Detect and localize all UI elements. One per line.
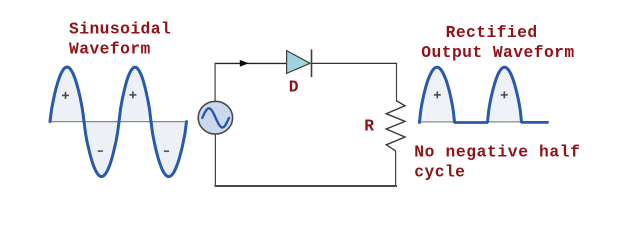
wire: right vertical, corner to resistor top <box>396 63 398 101</box>
wire: left vertical, source bottom to corner <box>214 134 216 186</box>
svg-text:cycle: cycle <box>414 162 465 181</box>
svg-text:R: R <box>364 117 374 136</box>
resistor R zigzag <box>386 101 405 151</box>
wire: left vertical, corner to source top <box>214 63 216 102</box>
rectified hump 1 fill <box>420 67 455 122</box>
svg-text:Rectified: Rectified <box>446 23 538 42</box>
wire: top, diode to top-right corner <box>311 62 397 64</box>
rectified hump 1 curve <box>420 67 455 122</box>
output baseline between humps <box>454 121 488 124</box>
svg-text:Output Waveform: Output Waveform <box>421 43 574 62</box>
input waveform baseline (x-axis) <box>50 121 187 123</box>
AC source V1 (circle with sine) <box>198 101 232 134</box>
plus sign, input cycle 2 <box>129 91 136 98</box>
plus sign, input cycle 1 <box>62 92 69 99</box>
svg-text:Sinusoidal: Sinusoidal <box>69 19 171 38</box>
wire: top, source to diode (with current arrow) <box>215 62 287 64</box>
minus sign, input cycle 2 <box>164 150 169 152</box>
svg-text:Waveform: Waveform <box>69 39 151 58</box>
output baseline stub left <box>418 121 420 124</box>
gray chord under hump 1 <box>420 121 455 123</box>
svg-text:No negative half: No negative half <box>414 142 580 161</box>
input sine waveform curve <box>50 67 187 177</box>
diode D: anode triangle <box>287 51 311 74</box>
input sine waveform fill <box>50 67 187 177</box>
wire: right vertical, resistor bottom to corner <box>395 151 397 187</box>
rectified hump 2 curve <box>488 67 522 122</box>
current direction arrow <box>240 60 249 67</box>
plus sign, output hump 2 <box>501 91 508 98</box>
rectified hump 2 fill <box>488 67 522 122</box>
output baseline right <box>521 121 549 124</box>
plus sign, output hump 1 <box>434 91 441 98</box>
gray chord under hump 2 <box>488 121 522 123</box>
minus sign, input cycle 1 <box>98 150 103 152</box>
svg-text:D: D <box>289 78 299 97</box>
wire: bottom <box>215 185 398 187</box>
diode D: cathode bar <box>311 49 313 77</box>
